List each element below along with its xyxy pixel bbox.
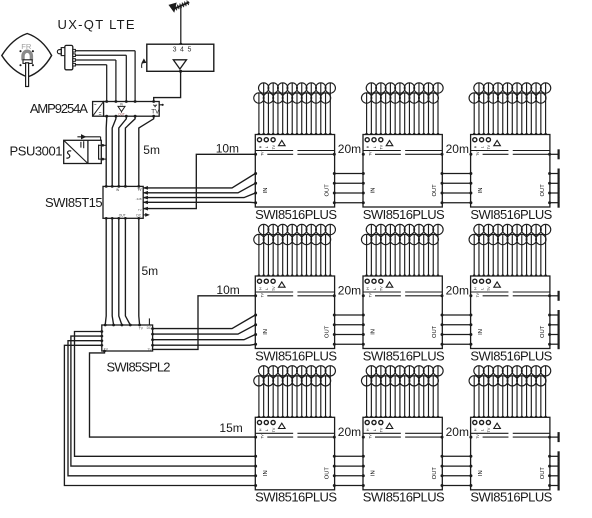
svg-text:3 4 5: 3 4 5 bbox=[173, 47, 193, 54]
svg-text:TV: TV bbox=[487, 286, 491, 291]
svg-text:L: L bbox=[373, 146, 377, 148]
svg-text:IN: IN bbox=[371, 329, 377, 335]
svg-text:IN: IN bbox=[478, 470, 484, 476]
svg-text:L: L bbox=[265, 429, 269, 431]
svg-text:OUT: OUT bbox=[432, 184, 438, 197]
svg-text:L: L bbox=[480, 146, 484, 148]
svg-text:TV: TV bbox=[151, 109, 160, 116]
svg-text:TV: TV bbox=[380, 286, 384, 291]
svg-text:L: L bbox=[373, 429, 377, 431]
svg-text:PSU3001: PSU3001 bbox=[10, 144, 63, 159]
svg-text:H: H bbox=[366, 428, 370, 431]
svg-text:L: L bbox=[265, 146, 269, 148]
svg-text:TV: TV bbox=[476, 292, 480, 297]
svg-text:5m: 5m bbox=[142, 264, 159, 278]
svg-text:IN: IN bbox=[371, 187, 377, 193]
svg-text:TV: TV bbox=[380, 144, 384, 149]
svg-text:-3dB: -3dB bbox=[136, 197, 142, 201]
svg-text:H: H bbox=[258, 428, 262, 431]
svg-text:20m: 20m bbox=[338, 142, 361, 156]
svg-text:L: L bbox=[480, 288, 484, 290]
svg-text:SWI85SPL2: SWI85SPL2 bbox=[107, 360, 171, 375]
svg-text:OUT: OUT bbox=[325, 467, 331, 480]
svg-text:TV: TV bbox=[368, 151, 372, 156]
svg-text:IN: IN bbox=[478, 329, 484, 335]
svg-text:IN: IN bbox=[478, 187, 484, 193]
svg-text:5m: 5m bbox=[143, 143, 160, 157]
svg-text:H: H bbox=[474, 145, 478, 148]
svg-text:DC: DC bbox=[147, 326, 152, 330]
svg-text:H: H bbox=[258, 287, 262, 290]
svg-text:H: H bbox=[366, 145, 370, 148]
svg-text:UX-QT LTE: UX-QT LTE bbox=[58, 17, 136, 32]
svg-text:TV: TV bbox=[487, 427, 491, 432]
svg-text:IN: IN bbox=[263, 470, 269, 476]
svg-text:TV: TV bbox=[272, 286, 276, 291]
svg-text:10m: 10m bbox=[216, 283, 239, 297]
svg-text:TV: TV bbox=[261, 151, 265, 156]
svg-text:H: H bbox=[366, 287, 370, 290]
svg-text:20m: 20m bbox=[338, 425, 361, 439]
svg-text:SWI8516PLUS: SWI8516PLUS bbox=[363, 207, 445, 222]
svg-text:SWI8516PLUS: SWI8516PLUS bbox=[470, 207, 552, 222]
svg-text:OUT: OUT bbox=[118, 113, 125, 117]
svg-text:OUT: OUT bbox=[432, 325, 438, 338]
svg-text:20m: 20m bbox=[446, 142, 469, 156]
svg-text:SWI8516PLUS: SWI8516PLUS bbox=[255, 207, 337, 222]
svg-text:IN: IN bbox=[263, 187, 269, 193]
svg-text:IN: IN bbox=[263, 329, 269, 335]
svg-text:TV: TV bbox=[261, 434, 265, 439]
svg-text:15m: 15m bbox=[219, 421, 242, 435]
svg-text:OUT: OUT bbox=[432, 467, 438, 480]
svg-text:OUT: OUT bbox=[540, 467, 546, 480]
svg-text:SWI85T15: SWI85T15 bbox=[45, 195, 102, 210]
svg-text:AMP9254A: AMP9254A bbox=[30, 101, 88, 116]
svg-text:H: H bbox=[258, 145, 262, 148]
svg-text:SWI8516PLUS: SWI8516PLUS bbox=[255, 348, 337, 363]
svg-text:TV: TV bbox=[272, 144, 276, 149]
svg-text:H: H bbox=[474, 428, 478, 431]
svg-text:TV: TV bbox=[138, 187, 142, 191]
svg-text:H: H bbox=[474, 287, 478, 290]
svg-text:=: = bbox=[99, 111, 102, 117]
svg-text:TV: TV bbox=[261, 292, 265, 297]
svg-text:SWI8516PLUS: SWI8516PLUS bbox=[255, 490, 337, 505]
svg-text:SWI8516PLUS: SWI8516PLUS bbox=[470, 348, 552, 363]
svg-text:TV: TV bbox=[476, 151, 480, 156]
svg-text:OUT: OUT bbox=[119, 214, 126, 218]
svg-text:TV: TV bbox=[138, 208, 142, 212]
svg-text:20m: 20m bbox=[446, 284, 469, 298]
svg-text:SWI8516PLUS: SWI8516PLUS bbox=[363, 348, 445, 363]
svg-text:OUT: OUT bbox=[540, 325, 546, 338]
svg-text:L: L bbox=[480, 429, 484, 431]
svg-text:TV: TV bbox=[380, 427, 384, 432]
svg-text:OUT: OUT bbox=[325, 325, 331, 338]
svg-text:TV: TV bbox=[368, 434, 372, 439]
svg-text:TV: TV bbox=[476, 434, 480, 439]
svg-text:DC: DC bbox=[136, 214, 141, 218]
svg-text:OUT: OUT bbox=[540, 184, 546, 197]
svg-text:IN: IN bbox=[371, 470, 377, 476]
svg-text:L: L bbox=[265, 288, 269, 290]
svg-text:OUT: OUT bbox=[325, 184, 331, 197]
svg-text:SWI8516PLUS: SWI8516PLUS bbox=[470, 490, 552, 505]
svg-text:20m: 20m bbox=[338, 284, 361, 298]
svg-text:TV: TV bbox=[487, 144, 491, 149]
svg-text:SWI8516PLUS: SWI8516PLUS bbox=[363, 490, 445, 505]
svg-text:L: L bbox=[373, 288, 377, 290]
svg-text:TV: TV bbox=[368, 292, 372, 297]
svg-text:10m: 10m bbox=[216, 142, 239, 156]
svg-text:TV: TV bbox=[272, 427, 276, 432]
svg-text:~: ~ bbox=[94, 102, 97, 108]
svg-text:20m: 20m bbox=[446, 425, 469, 439]
